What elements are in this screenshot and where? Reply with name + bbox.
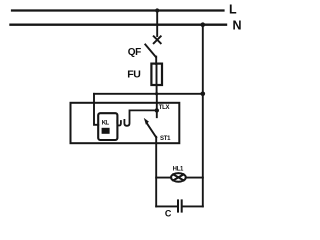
svg-text:HL1: HL1	[173, 166, 184, 172]
wire: N drop right side	[202, 25, 204, 207]
switch arm ST with arrowhead	[144, 118, 156, 137]
wire: lamp branch right	[186, 177, 203, 179]
node: junction on L line	[155, 8, 159, 12]
svg-text:TLX: TLX	[159, 105, 170, 111]
capacitor C plates	[178, 200, 182, 211]
node: junction at switch fixed terminal	[155, 108, 159, 112]
wire: lamp branch left	[156, 177, 171, 179]
svg-text:N: N	[233, 19, 242, 33]
svg-text:ST1: ST1	[160, 136, 171, 142]
svg-text:QF: QF	[128, 47, 141, 58]
wire: neutral line N	[11, 24, 227, 26]
wire: switch fixed contact drop	[156, 94, 158, 117]
relay coil KL box	[98, 113, 117, 140]
relay core filled block	[102, 128, 110, 134]
wire: QF to fuse FU	[155, 57, 157, 64]
wire: horizontal bus	[94, 93, 203, 95]
wire: fuse to bus junction	[156, 85, 158, 94]
node: bus meets fuse wire	[155, 92, 158, 95]
lamp HL1	[171, 173, 186, 182]
svg-text:L: L	[229, 3, 237, 17]
connector socket (left cup)	[117, 121, 121, 126]
node: bus meets right drop	[201, 92, 206, 97]
svg-text:C: C	[165, 209, 172, 219]
connector plug (right cup) and wire to switch node	[124, 110, 156, 125]
svg-text:FU: FU	[127, 69, 140, 81]
wire: capacitor branch left	[156, 205, 177, 207]
node: junction on N line	[201, 22, 206, 27]
breaker contact cross of QF	[154, 36, 161, 43]
wire: capacitor branch right	[183, 205, 203, 207]
wire: phase line L	[12, 9, 224, 11]
wire: through fuse	[156, 64, 158, 85]
box: control unit outline	[71, 103, 180, 143]
svg-text:KL: KL	[102, 120, 110, 126]
switch arm QF	[145, 45, 156, 58]
fuse FU	[151, 64, 162, 85]
wire: bus down to relay coil KL	[94, 94, 98, 125]
wire: switch pivot down to branches	[155, 137, 157, 207]
wire: L drop to breaker QF	[156, 11, 158, 37]
